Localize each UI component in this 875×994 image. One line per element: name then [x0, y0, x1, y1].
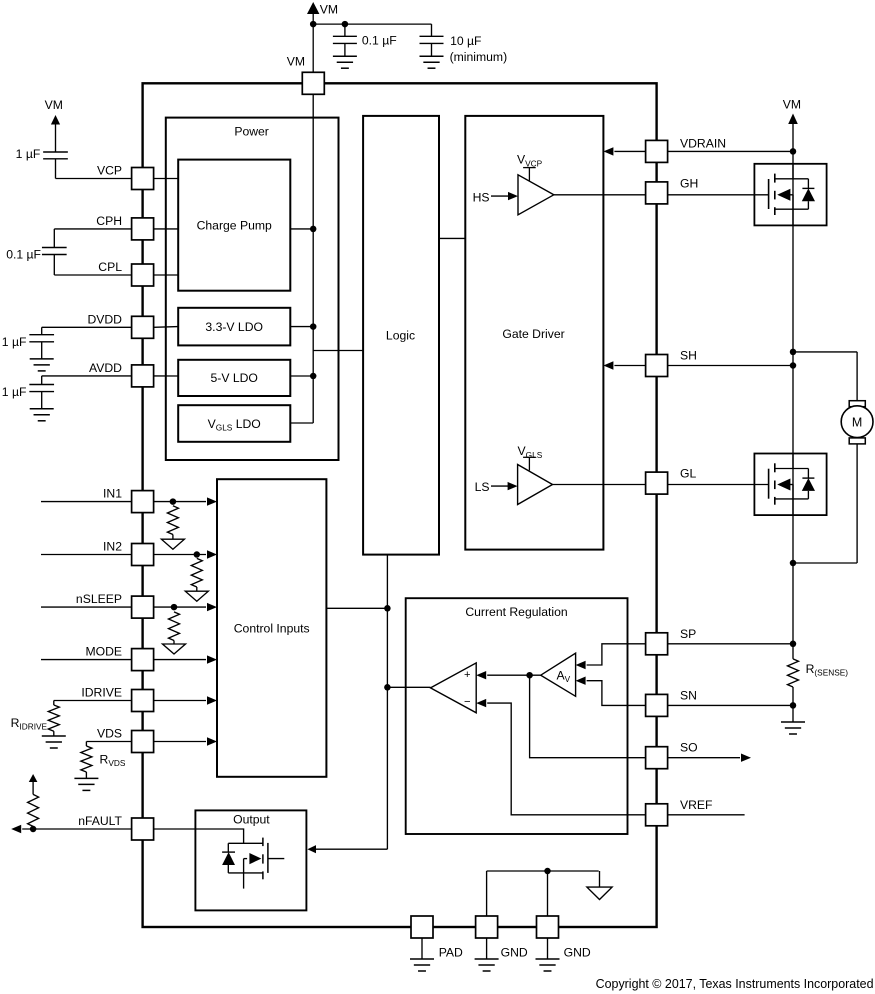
- node nFAULT pullup: [30, 826, 37, 833]
- wire DVDD to LDO: [154, 326, 179, 329]
- svg-text:VM: VM: [287, 55, 305, 69]
- pulldown symbol nSLEEP: [163, 644, 186, 654]
- label 0.1uF (CPH-CPL): [6, 247, 41, 261]
- label Power: [234, 125, 269, 139]
- svg-text:Logic: Logic: [386, 329, 415, 343]
- wire 3.3-V LDO out: [290, 326, 313, 328]
- pin IN1: [132, 491, 154, 513]
- pin CPH: [132, 218, 154, 240]
- pin MODE: [132, 649, 154, 671]
- wire VM rail upper: [792, 123, 794, 164]
- pin VDRAIN: [646, 140, 668, 162]
- VM arrow (right): [788, 114, 798, 125]
- svg-text:Control Inputs: Control Inputs: [234, 622, 310, 636]
- wire SO external: [668, 754, 751, 762]
- pin label SH: [680, 349, 697, 363]
- resistor IN1 pulldown: [167, 506, 178, 539]
- label VM (VCP cap): [45, 98, 63, 112]
- resistor nFAULT pullup: [28, 794, 39, 826]
- svg-text:Current Regulation: Current Regulation: [465, 605, 567, 619]
- label Control Inputs: [234, 622, 310, 636]
- pin label SN: [680, 688, 697, 702]
- svg-text:VDS: VDS: [97, 727, 122, 741]
- pin DVDD: [132, 316, 154, 338]
- wire 5-V LDO out: [290, 375, 313, 377]
- wire GND bus: [487, 870, 599, 872]
- svg-text:3.3-V LDO: 3.3-V LDO: [205, 320, 263, 334]
- label 0.1uF (top): [362, 34, 397, 48]
- pin label VDRAIN: [680, 136, 726, 150]
- node AV out: [526, 672, 533, 679]
- svg-text:M: M: [852, 416, 862, 430]
- label LS: [475, 480, 490, 494]
- wire nSLEEP external: [41, 606, 132, 608]
- VM arrow (VCP cap): [51, 115, 60, 152]
- pin label IDRIVE: [81, 686, 122, 700]
- label Current Regulation: [465, 605, 567, 619]
- resistor RSENSE: [788, 659, 799, 687]
- wire VREF input: [476, 699, 645, 815]
- pin VCP: [132, 168, 154, 190]
- wire VDRAIN to rail: [668, 150, 793, 152]
- pin label AVDD: [89, 361, 122, 375]
- wire motor top: [793, 352, 857, 401]
- wire AV out to comparator: [476, 671, 541, 679]
- 3.3-V LDO block: [178, 308, 290, 346]
- wire AVDD external: [42, 376, 132, 385]
- current regulation block: [406, 598, 628, 834]
- wire VCP to charge pump: [154, 178, 179, 180]
- wire nFAULT to output FET: [154, 829, 244, 843]
- node SN junction: [790, 702, 797, 709]
- svg-text:VCP: VCP: [97, 164, 122, 178]
- pin label GH: [680, 176, 698, 190]
- node SH rail: [790, 362, 797, 369]
- label VGLS LDO: [208, 417, 261, 433]
- label 3.3-V LDO: [205, 320, 263, 334]
- op-amp comparator: [431, 663, 477, 713]
- svg-text:0.1 µF: 0.1 µF: [362, 34, 397, 48]
- logic ground symbol: [587, 871, 612, 900]
- pin VM (top): [302, 72, 324, 94]
- wire rail below low FET: [792, 515, 794, 659]
- svg-text:nSLEEP: nSLEEP: [76, 592, 122, 606]
- pin VDS: [132, 731, 154, 753]
- label RSENSE: [806, 662, 849, 678]
- wire SN to RSENSE: [668, 704, 793, 706]
- label Output: [233, 813, 270, 827]
- pin label nSLEEP: [76, 592, 122, 606]
- node charge pump out: [310, 226, 317, 233]
- wire logic to output block: [307, 845, 387, 853]
- copyright notice: [596, 977, 874, 991]
- svg-text:SO: SO: [680, 741, 698, 755]
- pin GND 2: [537, 916, 559, 938]
- svg-text:−: −: [464, 696, 471, 708]
- node 5-V LDO out: [310, 373, 317, 380]
- node VM-cap1: [310, 21, 317, 28]
- op-amp LS buffer: [518, 465, 553, 505]
- motor M: [841, 401, 873, 444]
- svg-text:1 µF: 1 µF: [16, 147, 41, 161]
- wire IDRIVE external: [54, 701, 132, 706]
- pin GH: [646, 182, 668, 204]
- pin IN2: [132, 544, 154, 566]
- svg-text:GND: GND: [501, 945, 528, 959]
- wire GH to FET: [668, 194, 769, 196]
- wire MODE external: [41, 659, 132, 661]
- wire CPH external: [54, 229, 131, 248]
- 5-V LDO block: [178, 360, 290, 396]
- label 1uF (AVDD): [2, 385, 27, 399]
- control inputs block: [217, 479, 326, 777]
- node IN2 pulldown: [194, 551, 201, 558]
- label Gate Driver: [502, 327, 564, 341]
- capacitor 1uF (VCP): [43, 152, 131, 179]
- resistor nSLEEP pulldown: [169, 612, 180, 644]
- pin nSLEEP: [132, 596, 154, 618]
- pin GND 1: [476, 916, 498, 938]
- wire SP to RSENSE: [668, 643, 793, 645]
- svg-text:VDRAIN: VDRAIN: [680, 136, 726, 150]
- label Logic: [386, 329, 415, 343]
- pin label MODE: [85, 645, 122, 659]
- label RVDS: [100, 753, 126, 769]
- label Charge Pump: [197, 219, 272, 233]
- wire IN2 to control: [154, 550, 217, 558]
- svg-text:SH: SH: [680, 349, 697, 363]
- pin label GND 2: [564, 945, 591, 959]
- wire power to logic: [313, 350, 363, 352]
- power block: [166, 118, 339, 460]
- svg-text:IN1: IN1: [103, 487, 122, 501]
- svg-text:Power: Power: [234, 125, 269, 139]
- ground GND1: [475, 938, 499, 971]
- pin label SO: [680, 741, 698, 755]
- svg-text:IN2: IN2: [103, 540, 122, 554]
- pin CPL: [132, 264, 154, 286]
- svg-text:GL: GL: [680, 467, 696, 481]
- resistor RVDS: [81, 746, 92, 778]
- capacitor 0.1uF (CPH-CPL): [42, 248, 132, 276]
- label RIDRIVE: [11, 716, 48, 732]
- node IN1 pulldown: [170, 498, 177, 505]
- ground RIDRIVE: [42, 736, 66, 748]
- node GND bus: [544, 868, 551, 875]
- VM label (right): [783, 97, 801, 111]
- svg-text:(minimum): (minimum): [450, 50, 508, 64]
- svg-text:PAD: PAD: [439, 945, 463, 959]
- svg-text:Copyright © 2017, Texas Instru: Copyright © 2017, Texas Instruments Inco…: [596, 977, 874, 991]
- label HS: [473, 190, 490, 204]
- pin PAD: [411, 916, 433, 938]
- wire VDRAIN to gate driver: [603, 147, 645, 155]
- node nSLEEP pulldown: [171, 604, 178, 611]
- capacitor 10uF (top): [420, 24, 444, 68]
- capacitor 1uF (AVDD): [29, 385, 54, 421]
- svg-text:VREF: VREF: [680, 798, 713, 812]
- svg-text:Gate Driver: Gate Driver: [502, 327, 564, 341]
- pin label GL: [680, 467, 696, 481]
- pin label GND 1: [501, 945, 528, 959]
- pin label VREF: [680, 798, 713, 812]
- pin label VM: [287, 55, 305, 69]
- wire SH to gate driver: [603, 361, 645, 369]
- label VVCP: [517, 153, 543, 169]
- wire RSENSE to SN: [792, 687, 794, 722]
- wire VREF external: [668, 814, 745, 816]
- svg-text:VM: VM: [320, 3, 338, 17]
- pin label IN2: [103, 540, 122, 554]
- wire CPH to charge pump: [154, 228, 179, 230]
- pin VREF: [646, 804, 668, 826]
- pin label nFAULT: [78, 814, 122, 828]
- pin nFAULT: [132, 818, 154, 840]
- pin SN: [646, 694, 668, 716]
- wire IDRIVE to control: [154, 696, 217, 704]
- wire SP input: [576, 644, 646, 669]
- svg-text:+: +: [464, 669, 471, 681]
- pin label DVDD: [87, 312, 122, 326]
- transistor low-side FET: [754, 454, 826, 516]
- wire CPL to charge pump: [154, 274, 179, 276]
- svg-text:VM: VM: [45, 98, 63, 112]
- VM label (top): [320, 3, 338, 17]
- pin IDRIVE: [132, 690, 154, 712]
- svg-text:VM: VM: [783, 97, 801, 111]
- capacitor 1uF (DVDD): [29, 335, 54, 371]
- svg-text:GND: GND: [564, 945, 591, 959]
- node comparator out: [384, 684, 391, 691]
- pin SO: [646, 747, 668, 769]
- wire control inputs to logic line: [326, 607, 387, 609]
- charge pump block: [178, 160, 290, 291]
- wire GL to FET: [668, 484, 769, 486]
- svg-text:1 µF: 1 µF: [2, 385, 27, 399]
- wire logic to gate driver: [439, 237, 465, 239]
- svg-text:Charge Pump: Charge Pump: [197, 219, 272, 233]
- ground GND2: [536, 938, 560, 971]
- chip outline: [143, 83, 657, 927]
- svg-text:AVDD: AVDD: [89, 361, 122, 375]
- wire rail between FETs: [792, 225, 794, 453]
- op-amp AV: [541, 653, 576, 696]
- wire SN input: [576, 677, 646, 706]
- wire VM internal bus: [312, 94, 314, 423]
- node SP junction: [790, 641, 797, 648]
- svg-text:nFAULT: nFAULT: [78, 814, 122, 828]
- wire GND2 up: [547, 871, 549, 916]
- ground RSENSE: [781, 722, 805, 734]
- wire DVDD external: [42, 327, 132, 334]
- pin AVDD: [132, 365, 154, 387]
- resistor RIDRIVE: [48, 705, 59, 736]
- svg-text:GH: GH: [680, 176, 698, 190]
- nFAULT pullup arrow: [29, 774, 38, 794]
- wire IN1 to control: [154, 497, 217, 505]
- pin label CPH: [96, 214, 122, 228]
- pin label VCP: [97, 164, 122, 178]
- wire IN1 external: [41, 501, 132, 503]
- wire VDS to control: [154, 737, 217, 745]
- pulldown symbol IN1: [161, 539, 184, 549]
- pin label PAD: [439, 945, 463, 959]
- node motor bottom join: [790, 560, 797, 567]
- VVCP tap: [523, 168, 536, 181]
- wire SO output: [530, 675, 646, 758]
- svg-text:SP: SP: [680, 627, 696, 641]
- label AV: [557, 669, 571, 685]
- svg-text:IDRIVE: IDRIVE: [81, 686, 122, 700]
- svg-text:5-V LDO: 5-V LDO: [210, 371, 257, 385]
- VGLS LDO block: [178, 405, 290, 442]
- label 10uF (top): [450, 34, 508, 64]
- gate driver block: [465, 116, 603, 550]
- svg-text:10 µF: 10 µF: [450, 34, 481, 48]
- op-amp HS buffer: [518, 175, 554, 215]
- node VM-cap2: [342, 21, 349, 28]
- VM supply arrow (top): [307, 2, 319, 72]
- svg-text:1 µF: 1 µF: [2, 335, 27, 349]
- wire LS output to GL: [553, 484, 646, 486]
- wire VDS external: [86, 742, 131, 747]
- resistor IN2 pulldown: [191, 558, 202, 591]
- label 1uF (DVDD): [2, 335, 27, 349]
- VGLS tap: [523, 457, 536, 470]
- logic block: [363, 116, 439, 555]
- wire SH to rail: [668, 365, 793, 367]
- pin SP: [646, 633, 668, 655]
- ground RVDS: [74, 778, 98, 790]
- wire GND1 up: [486, 871, 488, 916]
- pin label VDS: [97, 727, 122, 741]
- svg-text:VGLS LDO: VGLS LDO: [208, 417, 261, 433]
- wire motor bottom: [793, 444, 857, 563]
- label VGLS: [518, 444, 543, 460]
- svg-text:Output: Output: [233, 813, 270, 827]
- diode output body: [222, 843, 235, 873]
- transistor output FET: [228, 838, 284, 889]
- wire nSLEEP to control: [154, 603, 217, 611]
- wire VGLS LDO out: [290, 422, 313, 424]
- pin label SP: [680, 627, 696, 641]
- node VDRAIN rail: [790, 148, 797, 155]
- capacitor 0.1uF (top): [333, 24, 357, 68]
- pin GL: [646, 472, 668, 494]
- svg-text:HS: HS: [473, 190, 490, 204]
- wire HS input: [491, 192, 518, 200]
- node motor top branch: [790, 349, 797, 356]
- node 3.3-V LDO out: [310, 323, 317, 330]
- wire nFAULT external: [11, 825, 131, 833]
- label 5-V LDO: [210, 371, 257, 385]
- node control-logic: [384, 605, 391, 612]
- wire LS input: [491, 482, 518, 490]
- label 1uF (VCP): [16, 147, 41, 161]
- svg-text:CPL: CPL: [98, 260, 122, 274]
- wire AVDD to LDO: [154, 375, 179, 377]
- wire MODE to control: [154, 655, 217, 663]
- pin label CPL: [98, 260, 122, 274]
- svg-text:DVDD: DVDD: [87, 312, 122, 326]
- pin label IN1: [103, 487, 122, 501]
- pin SH: [646, 355, 668, 377]
- wire HS output to GH: [554, 194, 646, 196]
- pulldown symbol IN2: [185, 591, 208, 601]
- ground PAD: [410, 938, 434, 971]
- transistor high-side FET: [754, 164, 826, 226]
- svg-text:CPH: CPH: [96, 214, 122, 228]
- svg-text:MODE: MODE: [85, 645, 122, 659]
- wire IN2 external: [41, 554, 132, 556]
- wire comparator output: [387, 686, 430, 688]
- output block: [195, 810, 306, 910]
- svg-text:LS: LS: [475, 480, 490, 494]
- svg-text:SN: SN: [680, 688, 697, 702]
- svg-text:0.1 µF: 0.1 µF: [6, 247, 41, 261]
- wire charge pump out: [290, 228, 313, 230]
- wire logic vertical: [386, 555, 388, 850]
- wire VM to caps: [313, 23, 431, 25]
